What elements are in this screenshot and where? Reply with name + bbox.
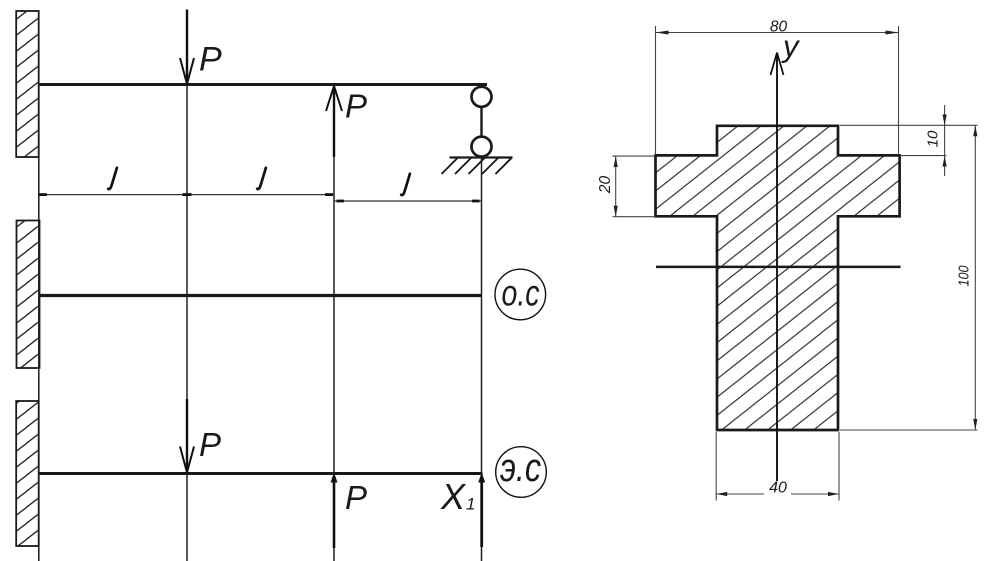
T-section outline with hatching — [656, 126, 900, 430]
svg-text:P: P — [345, 479, 367, 516]
dimension line l segment 3 — [334, 200, 482, 202]
grid vertical line x=481.5 — [481, 157, 483, 561]
force P4 arrow (up, under beam 3, filled head) — [331, 473, 338, 549]
dimension 40 (stem width, bottom) — [716, 432, 839, 501]
roller support: link line — [480, 106, 482, 137]
dimension 10 (top flange height, right) — [840, 105, 978, 176]
wall support 2 (middle left, hatched) — [17, 221, 40, 369]
dimension 80 (top width) — [656, 26, 899, 155]
roller support: lower circle — [472, 137, 492, 157]
svg-text:80: 80 — [770, 19, 788, 36]
svg-text:X: X — [440, 476, 467, 517]
force P1 arrow (down, onto beam 1) — [180, 10, 194, 85]
y axis — [771, 53, 784, 482]
svg-text:1: 1 — [466, 495, 475, 514]
roller support: upper circle — [472, 87, 492, 107]
svg-text:P: P — [199, 41, 222, 79]
wall support 1 (top left, hatched) — [16, 11, 39, 157]
ground hatch strokes — [442, 158, 513, 175]
svg-text:P: P — [345, 88, 367, 125]
dim 40 arrowheads — [716, 492, 727, 496]
svg-text:40: 40 — [769, 480, 787, 497]
label l 1 — [108, 168, 117, 189]
dimension ticks row 1 seg3 — [337, 200, 480, 203]
circle label o.c — [495, 269, 546, 320]
beam 2 (middle, o.c system) — [39, 294, 481, 297]
svg-text:P: P — [199, 426, 221, 463]
svg-text:э.c: э.c — [500, 446, 541, 490]
svg-text:100: 100 — [956, 265, 973, 287]
grid vertical line at wall edge x=39 — [38, 84, 40, 561]
beam 1 (top) — [38, 83, 487, 86]
svg-text:o.c: o.c — [502, 273, 540, 314]
label l 2 — [257, 168, 266, 189]
reaction X1 arrow (up at beam 3 right end) — [478, 473, 485, 548]
ground line under roller — [450, 156, 513, 158]
wall support 3 (bottom left, hatched) — [16, 401, 39, 546]
dim 100 arrowheads — [973, 125, 977, 136]
dim 80 arrowheads — [656, 31, 669, 35]
dimension 100 (total height, far right) — [840, 125, 978, 430]
dimension ticks row 1 — [39, 193, 333, 196]
beam 3 (bottom, equivalent system) — [39, 472, 483, 475]
svg-text:20: 20 — [597, 176, 614, 195]
centroid horizontal line — [656, 266, 901, 269]
grid vertical line x=334 — [333, 84, 335, 561]
dimension line l segments 1-2 — [39, 194, 334, 196]
label l 3 — [401, 174, 410, 195]
dim 10 arrowheads — [943, 115, 947, 126]
grid vertical line x=187 — [186, 84, 188, 561]
force P3 arrow (down, onto beam 3) — [180, 399, 194, 473]
force P2 arrow (up, under beam 1) — [326, 86, 342, 157]
svg-text:10: 10 — [925, 130, 942, 147]
dimension 20 (left flange height) — [613, 156, 656, 217]
dim 20 arrowheads — [614, 156, 618, 167]
circle label e.c — [496, 447, 547, 498]
